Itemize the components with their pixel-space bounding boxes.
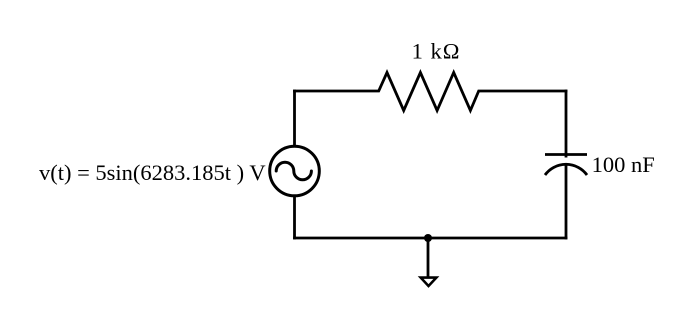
svg-text:1 kΩ: 1 kΩ bbox=[412, 39, 461, 64]
svg-text:100 nF: 100 nF bbox=[592, 152, 655, 177]
svg-text:v(t) = 5sin(6283.185t ) V: v(t) = 5sin(6283.185t ) V bbox=[39, 160, 266, 185]
